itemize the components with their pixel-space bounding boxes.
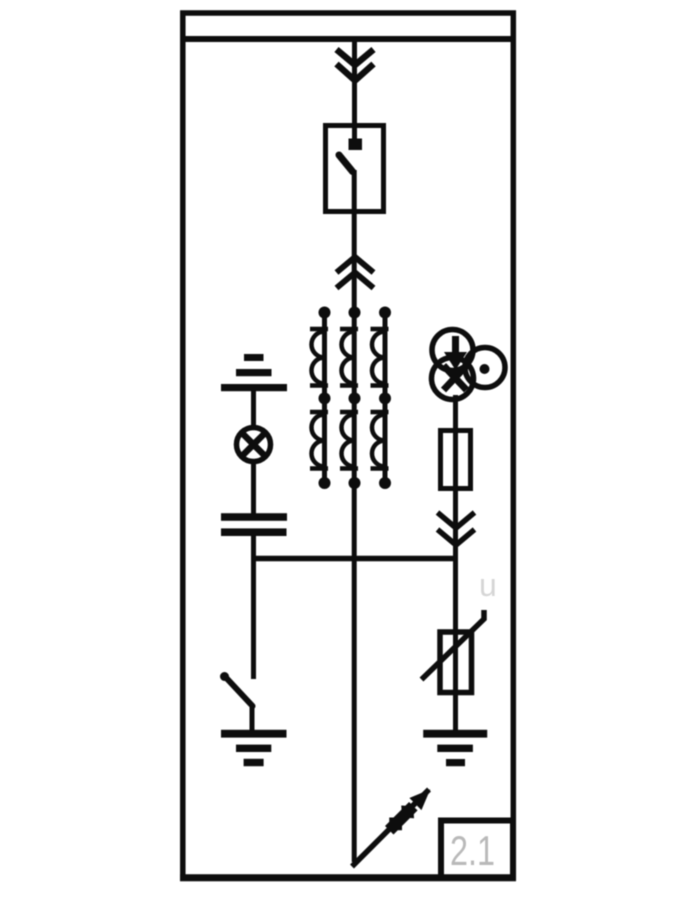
svg-text:u: u xyxy=(479,567,497,603)
svg-text:2.1: 2.1 xyxy=(450,827,495,874)
